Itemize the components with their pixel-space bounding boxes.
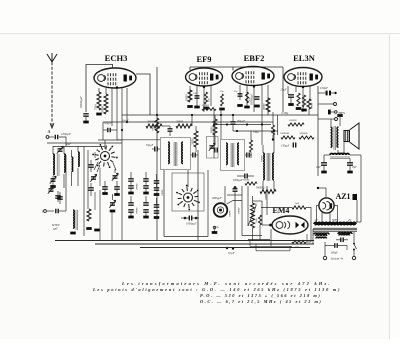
resistor 500000 <box>288 119 304 126</box>
svg-text:150µµF: 150µµF <box>281 145 290 148</box>
wire ECH3 leads down <box>112 86 122 240</box>
svg-text:Secteur 4v: Secteur 4v <box>331 257 344 261</box>
resistor 88c <box>86 209 92 229</box>
tube EL3N <box>284 68 322 87</box>
resistor EM4 top <box>261 202 311 242</box>
capacitor pair 131b top <box>128 196 134 205</box>
resistor 0.1M h <box>202 104 216 110</box>
capacitor pair 146 bottom <box>143 186 149 193</box>
capacitor pair 156 bottom <box>154 188 160 195</box>
label 20000 mid <box>136 183 139 190</box>
svg-text:8µF: 8µF <box>317 166 322 169</box>
svg-text:10000: 10000 <box>161 189 164 196</box>
capacitor pair 156 top <box>154 174 160 187</box>
capacitor pair 156b bottom <box>154 211 160 218</box>
svg-text:8µF: 8µF <box>353 166 358 169</box>
mains switch <box>352 232 356 260</box>
top bus <box>190 67 283 112</box>
antenna coil L2 <box>64 146 65 188</box>
trimmer CT3 <box>90 174 96 182</box>
resistor EBF2 cath <box>244 92 251 107</box>
junction dots under bus <box>225 247 237 255</box>
svg-text:100µF: 100µF <box>331 252 339 255</box>
ground bus 1 <box>55 240 314 242</box>
svg-text:50000: 50000 <box>311 102 314 109</box>
antenna coil L1 <box>53 146 54 186</box>
bus y124 <box>214 124 271 126</box>
capacitor pair 131 bottom <box>128 186 134 193</box>
svg-text:20000Ω: 20000Ω <box>147 121 156 124</box>
wire vert 318 <box>317 86 319 176</box>
coil core L1-L2 <box>57 154 59 176</box>
svg-text:50000µµF: 50000µµF <box>251 94 254 105</box>
capacitor pair 146 top <box>143 172 149 185</box>
label 30000 mid <box>136 207 139 214</box>
resistor 25u <box>219 90 225 109</box>
volume potentiometer <box>248 196 256 241</box>
resistor EF9 screen <box>211 115 218 143</box>
svg-text:50µµF: 50µµF <box>104 122 112 125</box>
antenna <box>47 53 57 128</box>
capacitor pair 156b top <box>154 198 160 207</box>
capacitor C osc a <box>57 192 63 204</box>
svg-text:50000: 50000 <box>263 103 266 110</box>
HPS connector <box>328 110 345 115</box>
bus AVC left drop <box>102 122 104 130</box>
label EL3N <box>293 53 316 63</box>
band switch S2 <box>176 185 200 211</box>
label Secteur <box>331 257 344 261</box>
svg-text:50µµF: 50µµF <box>146 144 154 147</box>
band switch S1 <box>92 144 118 168</box>
wire A to coil <box>59 137 66 146</box>
capacitor M800 <box>51 209 66 231</box>
capacitor MF1 left <box>146 144 160 152</box>
oscillator box <box>172 173 204 211</box>
svg-text:ECH3: ECH3 <box>105 53 128 63</box>
terminal out 1 <box>318 103 337 106</box>
power transformer <box>313 222 357 244</box>
svg-text:7500: 7500 <box>95 104 98 110</box>
trimmer CT4 <box>112 169 118 181</box>
wire AZ1 top <box>317 187 326 198</box>
capacitor CT4b <box>114 181 120 195</box>
capacitor pair 146b top <box>143 196 149 205</box>
capacitor 5000pF det <box>233 174 254 183</box>
label AZ1 <box>335 192 350 201</box>
tube EM4 <box>272 216 308 234</box>
terminal A <box>46 130 54 138</box>
tone pot ground <box>212 226 218 232</box>
resistor 7500 <box>95 88 102 114</box>
resistor 1M vol <box>255 215 262 241</box>
svg-text:100µµF: 100µµF <box>61 132 71 136</box>
svg-text:0,5Mµ: 0,5Mµ <box>282 112 289 115</box>
tube EF9 <box>186 68 223 86</box>
resistor EM4 bottom <box>292 234 311 249</box>
resistor EL3N cath <box>296 93 302 109</box>
wire EM4 bottom bend <box>250 241 292 251</box>
capacitor MF2 left <box>215 148 217 153</box>
capacitor pair 131 top <box>128 172 134 185</box>
svg-text:Les transformateurs M.F. sont: Les transformateurs M.F. sont accordés s… <box>121 281 332 286</box>
svg-text:O.C. — 6,7 et 21,5 MHz ( 45 e: O.C. — 6,7 et 21,5 MHz ( 45 et 21 m) <box>200 299 322 304</box>
svg-text:4V: 4V <box>348 219 351 222</box>
ground bus 3 <box>140 247 310 249</box>
wire vert 214 <box>213 109 215 158</box>
label 100uF <box>331 252 339 255</box>
capacitor 50000pF <box>80 96 89 122</box>
wire AZ1 anodes <box>317 206 338 223</box>
wire vert 157 <box>156 67 158 241</box>
wire AZ1 filament <box>322 213 330 223</box>
padder box <box>207 137 219 159</box>
loudspeaker <box>338 123 359 153</box>
wire vert 361 <box>356 155 361 222</box>
svg-text:100µF: 100µF <box>320 86 328 90</box>
svg-text:30µµF: 30µµF <box>122 119 129 122</box>
IF transformer MF1 box <box>161 138 191 170</box>
svg-text:0,1MΩ: 0,1MΩ <box>202 104 209 107</box>
resistor EL3N screen <box>307 99 314 115</box>
antenna coil L4 <box>78 146 79 186</box>
wire h139 <box>117 139 160 141</box>
resistor 100000 <box>280 132 295 139</box>
label EM4 <box>273 206 290 215</box>
wire S1 stubs <box>94 152 116 186</box>
resistor 50000 on 157 <box>152 118 159 133</box>
svg-text:50000: 50000 <box>211 126 214 133</box>
wire left vert 88 <box>87 150 89 209</box>
svg-text:50000µµF: 50000µµF <box>80 96 83 108</box>
label 4V a <box>315 219 318 222</box>
capacitor 100pF EBF2 <box>231 115 246 131</box>
svg-text:50000Ω: 50000Ω <box>300 132 308 135</box>
resistor 50000 el <box>299 132 314 139</box>
label 500V <box>332 219 338 222</box>
capacitor 150pF <box>281 143 296 148</box>
caption line 1 <box>121 281 332 286</box>
wire vert 164 <box>163 170 165 237</box>
wire vert 112 long <box>111 211 113 241</box>
wire vert 277 <box>277 115 279 135</box>
label 30 uuF <box>122 119 129 122</box>
capacitor 100uF out <box>318 86 337 95</box>
capacitor MF1 right <box>191 153 199 158</box>
svg-text:A: A <box>48 130 51 134</box>
svg-text:EL3N: EL3N <box>293 53 316 63</box>
output transformer <box>331 116 343 151</box>
capacitor EBF2 a <box>234 90 243 106</box>
trimmer 2pF <box>57 142 71 154</box>
svg-text:5000µµF: 5000µµF <box>233 179 243 182</box>
label 50000A <box>261 155 264 162</box>
capacitor 88a <box>88 160 94 172</box>
IF transformer MF2 box <box>221 140 245 171</box>
svg-text:µµF: µµF <box>53 228 58 231</box>
wire EBF2 leads <box>240 85 268 124</box>
caption line 2 <box>92 287 341 292</box>
svg-text:2µF: 2µF <box>66 142 71 146</box>
terminal out 2 <box>318 118 338 121</box>
svg-text:Les points d'alignement sont :: Les points d'alignement sont : G.O. — 14… <box>92 287 341 292</box>
resistor EF9 grid <box>186 90 193 107</box>
oscillator coil L5 <box>70 210 77 233</box>
wire left h146 <box>53 146 105 148</box>
filter capacitor 1 <box>317 155 328 172</box>
filter capacitor 2 <box>347 159 357 173</box>
label EF9 <box>196 54 211 64</box>
svg-text:4V: 4V <box>315 219 318 222</box>
page edge top <box>0 33 400 35</box>
wire ECH3 anode <box>136 74 150 115</box>
svg-text:0,1µF: 0,1µF <box>228 252 235 255</box>
resistor grid EL3N <box>272 112 275 141</box>
wire vert 221 <box>220 109 222 139</box>
capacitor tone top <box>227 186 242 241</box>
antenna coil L3 <box>72 150 73 186</box>
svg-text:20000: 20000 <box>238 207 241 214</box>
wire S2 top <box>177 170 188 187</box>
trimmer row2 112 <box>109 194 115 211</box>
label ECH3 <box>105 53 128 63</box>
bus y131 <box>233 130 278 132</box>
resistor det v2 <box>250 131 253 158</box>
svg-text:25µ: 25µ <box>220 90 224 93</box>
wire left vert 84 <box>83 146 85 236</box>
wire ECH3 grid cap <box>86 65 113 113</box>
svg-text:50000: 50000 <box>229 210 232 217</box>
ground bus 2 <box>95 243 314 245</box>
junction osc grid <box>117 129 123 140</box>
resistor EF9 cath <box>203 92 210 108</box>
tone potentiometer <box>212 186 243 229</box>
capacitor 105 <box>102 181 108 194</box>
wire S1 up <box>98 140 118 149</box>
bus screen y122 <box>103 121 273 123</box>
capacitor EF9 cath <box>193 92 200 107</box>
label 50000 col <box>265 193 268 200</box>
trimmer CT1 <box>50 176 56 186</box>
ground bar 97 <box>94 229 100 232</box>
resistor 20000 h2 <box>176 115 192 128</box>
svg-text:20000: 20000 <box>176 121 184 124</box>
wire vert 198 <box>197 150 199 241</box>
padder trimmer <box>209 143 215 151</box>
svg-text:100µµF: 100µµF <box>237 120 246 123</box>
resistor extra EL3N <box>301 95 307 110</box>
label osc vert <box>161 189 164 196</box>
resistor 50000 det v <box>263 98 270 112</box>
wire det links <box>261 123 275 145</box>
resistor 50000 vol h <box>243 179 257 186</box>
trimmer CT2 <box>48 186 54 194</box>
svg-text:50000: 50000 <box>243 179 250 182</box>
svg-text:30000: 30000 <box>136 207 139 214</box>
label 4V b <box>348 219 351 222</box>
svg-text:½Mµ: ½Mµ <box>253 131 259 134</box>
label EBF2 <box>244 53 265 63</box>
wire vol verts <box>242 186 267 236</box>
junction dots buses <box>156 114 248 132</box>
svg-text:25µ: 25µ <box>234 90 238 93</box>
IF transformer MF3 <box>263 145 274 190</box>
svg-text:50000: 50000 <box>186 94 189 101</box>
svg-text:EF9: EF9 <box>196 54 211 64</box>
label 0.5M <box>282 112 289 115</box>
IF transformer MF2 <box>226 143 239 167</box>
svg-text:1000µµF: 1000µµF <box>212 197 222 200</box>
wire ECH3 lead 4 <box>126 88 128 123</box>
tube EBF2 <box>232 67 274 86</box>
resistor 50000 det h <box>256 187 276 194</box>
page edge right <box>389 34 391 340</box>
capacitor pair 146b bottom <box>143 210 149 217</box>
terminal T <box>42 210 55 214</box>
svg-text:1000µµF: 1000µµF <box>186 223 197 226</box>
capacitor 58 <box>55 191 61 202</box>
resistor 20000 h1 <box>146 121 162 129</box>
IF transformer MF1 <box>168 142 183 166</box>
svg-text:100000Ω: 100000Ω <box>280 132 290 135</box>
mains lead left <box>323 242 326 260</box>
wire left h143 <box>47 142 122 144</box>
svg-text:P.O. — 530 et 1375 » ( 566: P.O. — 530 et 1375 » ( 566 et 218 m) <box>200 293 321 298</box>
capacitor 1000pF osc <box>181 216 199 226</box>
svg-text:AZ1: AZ1 <box>335 192 350 201</box>
tube AZ1 <box>319 198 334 213</box>
bus AVC y115 <box>122 114 318 116</box>
svg-text:1µΩ: 1µΩ <box>295 202 300 205</box>
capacitor 100pF antenna <box>55 132 71 139</box>
tube ECH3 <box>94 68 136 88</box>
capacitor pair 131b bottom <box>128 210 134 217</box>
outer box lines <box>164 170 208 237</box>
wire left vert 66 <box>65 155 67 211</box>
resistor 30000 <box>102 88 109 114</box>
svg-text:500V: 500V <box>332 219 338 222</box>
svg-text:500000: 500000 <box>289 119 297 122</box>
svg-text:EBF2: EBF2 <box>244 53 265 63</box>
svg-text:20000: 20000 <box>136 183 139 190</box>
svg-text:25µF: 25µF <box>281 89 287 92</box>
capacitor 50pF grid <box>103 122 117 140</box>
wire EF9 leads <box>190 86 211 112</box>
caption line 3 <box>200 293 321 298</box>
svg-text:500µµF: 500µµF <box>339 234 348 237</box>
svg-text:1µΩ: 1µΩ <box>295 246 300 249</box>
wire vol bends <box>242 236 270 240</box>
label half meg <box>253 131 259 134</box>
capacitor 25uF EL3N <box>281 89 295 105</box>
capacitor 88b <box>88 183 94 196</box>
svg-text:1Mµ: 1Mµ <box>255 218 258 223</box>
capacitor 10pF link <box>162 126 173 136</box>
capacitor MF2 right <box>245 153 252 158</box>
svg-text:20000: 20000 <box>192 138 195 145</box>
capacitor 50000 EBF2 <box>251 94 260 106</box>
caption line 4 <box>200 299 322 304</box>
terminal block AZ1 <box>353 194 358 222</box>
svg-text:30000: 30000 <box>102 105 105 113</box>
capacitor 500pF <box>336 234 348 243</box>
wire EL3N leads <box>288 86 310 112</box>
wire EM4 left <box>253 201 272 246</box>
capacitor mains <box>325 243 347 250</box>
resistor 20000 v <box>192 126 199 152</box>
filter choke <box>324 153 361 158</box>
wire left vert 95 100 <box>95 190 100 241</box>
